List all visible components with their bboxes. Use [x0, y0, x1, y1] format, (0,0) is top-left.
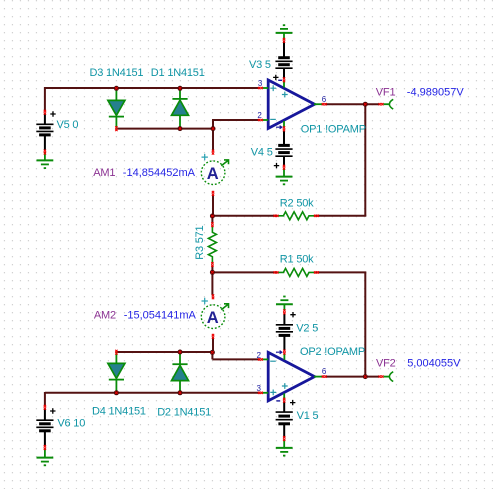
- pin VF1 probe: [379, 103, 384, 105]
- diode D4: [108, 352, 125, 393]
- pin OP2 bottom supply: [283, 398, 285, 403]
- wire V5 to ground: [44, 135, 46, 151]
- ground below V4: [276, 169, 293, 185]
- node OP1 output junction: [363, 102, 368, 107]
- pin R2 right: [314, 215, 319, 217]
- wire R3 bottom to node: [211, 266, 213, 273]
- wire node to OP2 pin2: [212, 358, 260, 360]
- V1 plus sign: [290, 400, 295, 405]
- wire AM1 to node R2: [212, 195, 214, 216]
- op-amp OP2: [268, 352, 314, 400]
- pin D4 anode: [115, 350, 117, 355]
- pin ground-V2 terminal: [283, 309, 285, 314]
- pin R1 right: [314, 271, 319, 273]
- svg-text:V5 0: V5 0: [57, 119, 79, 131]
- OP1 V+ marker: [282, 92, 288, 98]
- pin OP2 pin6 output: [322, 375, 327, 377]
- diode D1: [172, 89, 189, 129]
- svg-text:2: 2: [256, 351, 261, 360]
- pin OP1 V- supply: [283, 126, 285, 131]
- ammeter AM1: [201, 154, 228, 185]
- svg-text:R3 571: R3 571: [194, 225, 206, 259]
- voltage source V3: [275, 58, 292, 68]
- svg-text:V1 5: V1 5: [297, 410, 319, 422]
- op-amp OP1: [268, 80, 314, 128]
- svg-text:VF2: VF2: [376, 357, 396, 369]
- wire node down to AM2: [211, 272, 213, 295]
- wire node down to AM1: [212, 119, 214, 151]
- wire node to OP1 pin2: [213, 119, 260, 121]
- pin OP2 top supply: [283, 350, 285, 355]
- OP1 V- pin marker: [276, 126, 282, 129]
- wire V1 to ground: [283, 424, 285, 438]
- wire node to R2 left: [212, 215, 276, 217]
- pin OP1 V+ supply: [283, 77, 285, 82]
- svg-text:5,004055V: 5,004055V: [407, 357, 461, 369]
- resistor R1 body: [277, 268, 316, 276]
- voltage source V6: [36, 420, 53, 431]
- pin V5 bottom terminal: [44, 150, 46, 155]
- svg-text:R1 50k: R1 50k: [280, 254, 314, 266]
- voltage probe VF1: [383, 99, 393, 109]
- node B inverting-net junction bottom: [210, 350, 215, 355]
- wire ground to V2: [283, 314, 285, 326]
- pin V1-ground terminal: [283, 436, 285, 441]
- svg-text:VF1: VF1: [376, 86, 396, 98]
- pin R1 left: [274, 271, 279, 273]
- V3 plus sign: [273, 75, 278, 80]
- wire diode top rail D4-D2 to node: [116, 351, 213, 353]
- pin R3 top: [211, 222, 213, 227]
- svg-text:D2 1N4151: D2 1N4151: [157, 406, 211, 418]
- node D2 cathode junction: [178, 350, 183, 355]
- node R1 left junction: [210, 270, 215, 275]
- svg-text:V4 5: V4 5: [251, 146, 273, 158]
- OP1 inverting - marker: [270, 118, 276, 120]
- op-amp OP2 pin leads: [263, 353, 323, 399]
- ground below V1: [276, 440, 293, 456]
- wire feedback column up to OP1 output: [364, 104, 366, 216]
- pin R3 bottom: [211, 262, 213, 267]
- ground below V6: [37, 448, 54, 465]
- pin OP1 pin3: [258, 87, 263, 89]
- node D4 anode junction: [114, 390, 119, 395]
- OP1 noninverting + marker: [270, 85, 276, 91]
- node D3 anode junction: [114, 86, 119, 91]
- svg-text:D3 1N4151: D3 1N4151: [90, 67, 144, 79]
- voltage source V5: [36, 124, 53, 135]
- pin AM2 top: [212, 294, 214, 299]
- OP2 V+ pin dash: [276, 400, 280, 402]
- svg-text:A: A: [207, 165, 219, 183]
- svg-text:V2 5: V2 5: [296, 323, 318, 335]
- pin AM2 bottom: [212, 334, 214, 339]
- wire OP1 V- to V4: [283, 131, 285, 146]
- svg-text:OP2 !OPAMP: OP2 !OPAMP: [300, 346, 365, 358]
- diode D3: [108, 89, 125, 129]
- svg-text:6: 6: [322, 95, 327, 104]
- OP2 V- pin marker: [276, 351, 282, 354]
- pin OP1 pin6 output: [322, 103, 327, 105]
- V4 plus sign: [274, 163, 279, 168]
- svg-text:3: 3: [256, 384, 261, 393]
- svg-text:AM2: AM2: [94, 310, 116, 322]
- wire node jog down: [211, 352, 213, 359]
- resistor R3 body: [208, 226, 216, 263]
- svg-text:-14,854452mA: -14,854452mA: [123, 167, 196, 179]
- OP2 V+ marker: [282, 383, 288, 389]
- pin AM1 top: [212, 150, 214, 155]
- pin V5 top terminal: [44, 110, 46, 115]
- wire node to R3 top: [211, 216, 213, 223]
- wire diode bottom rail D3-D1 to node: [116, 128, 213, 130]
- ground above V2 (inverted): [276, 297, 293, 312]
- V2 plus sign: [290, 312, 295, 317]
- voltage probe VF2: [383, 372, 393, 382]
- resistor R2 body: [277, 212, 316, 220]
- wire OP2 output to VF2: [325, 376, 379, 378]
- svg-text:A: A: [207, 309, 219, 327]
- svg-text:D1 1N4151: D1 1N4151: [151, 67, 205, 79]
- voltage source V2: [276, 325, 293, 336]
- OP2 inverting - marker: [270, 360, 276, 362]
- node R2 left junction: [210, 214, 215, 219]
- svg-text:V3 5: V3 5: [249, 59, 271, 71]
- node D2 anode junction: [178, 390, 183, 395]
- wire feedback column down to OP2 output: [364, 272, 366, 376]
- V6 plus sign: [50, 408, 55, 413]
- svg-text:AM1: AM1: [93, 167, 115, 179]
- pin OP2 pin2: [258, 358, 263, 360]
- svg-text:-4,989057V: -4,989057V: [407, 86, 465, 98]
- pin V6 top terminal: [44, 405, 46, 410]
- ground below V5: [37, 152, 54, 168]
- pin OP1 pin2: [258, 119, 263, 121]
- wire V6 to bottom rail: [44, 392, 46, 406]
- pin AM1 bottom: [212, 191, 214, 196]
- wire ground to V3: [283, 42, 285, 59]
- pin D3 cathode: [115, 126, 117, 131]
- wire rail to V5 plates: [44, 114, 46, 125]
- node A inverting-net junction top: [211, 126, 216, 131]
- diode D2: [172, 352, 189, 393]
- voltage source V1: [276, 412, 293, 424]
- wire V5 to top rail: [44, 87, 46, 111]
- pin V4-ground terminal: [283, 165, 285, 170]
- op-amp OP1 pin leads: [263, 81, 323, 128]
- wire V4 to ground: [283, 156, 285, 166]
- node D1 anode junction: [178, 126, 183, 131]
- ground above V3 (inverted): [276, 25, 293, 39]
- voltage source V4: [275, 145, 292, 156]
- wire R1 right to feedback column: [316, 271, 367, 273]
- pin ground-V3 terminal: [283, 38, 285, 43]
- pin VF2 probe: [379, 375, 384, 377]
- wire OP2 bottom pin to V1: [283, 402, 285, 413]
- OP2 noninverting + marker: [270, 390, 276, 396]
- wire top rail from V5 to OP1 pin3: [45, 87, 260, 89]
- wire R2 right to feedback column: [316, 215, 367, 217]
- wire node to R1 left: [212, 271, 276, 273]
- wire V2 to OP2 top pin: [283, 335, 285, 351]
- svg-text:D4 1N4151: D4 1N4151: [92, 406, 146, 418]
- pin R2 left: [274, 215, 279, 217]
- wire V6 to ground: [44, 431, 46, 447]
- wire rail to V6 plates: [44, 409, 46, 421]
- OP1 V+ pin dash: [278, 79, 282, 81]
- wire bottom rail from V6 to OP2 pin3: [45, 392, 260, 394]
- wire OP1 output to VF1: [325, 103, 379, 105]
- node OP2 output junction: [363, 374, 368, 379]
- svg-text:V6 10: V6 10: [57, 418, 85, 430]
- svg-text:OP1 !OPAMP: OP1 !OPAMP: [301, 124, 366, 136]
- svg-text:-15,054141mA: -15,054141mA: [124, 310, 197, 322]
- node D1 cathode junction: [178, 86, 183, 91]
- pin OP2 pin3: [258, 392, 263, 394]
- V5 plus sign: [50, 111, 55, 116]
- wire V3 to OP1 V+: [283, 68, 285, 79]
- wire AM2 to node: [212, 338, 214, 354]
- svg-text:R2 50k: R2 50k: [280, 197, 314, 209]
- pin V6 bottom terminal: [44, 445, 46, 450]
- ammeter AM2: [201, 298, 228, 329]
